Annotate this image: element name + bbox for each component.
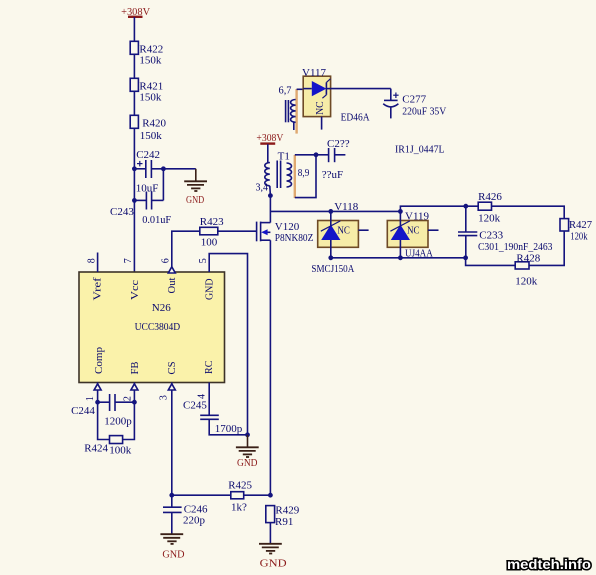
svg-text:NC: NC xyxy=(337,224,350,236)
pin 1 stub xyxy=(97,383,99,403)
svg-text:FB: FB xyxy=(129,362,141,375)
resistor R422 xyxy=(130,41,138,54)
pin 5 wire xyxy=(209,254,247,435)
resistor R420 xyxy=(130,115,138,128)
svg-text:6,7: 6,7 xyxy=(279,84,292,96)
node pin1 xyxy=(95,400,100,405)
resistor R424 with loop wires xyxy=(98,402,135,443)
pin 1 triangle xyxy=(94,384,101,390)
svg-text:0.01uF: 0.01uF xyxy=(142,214,171,226)
svg-text:10uF: 10uF xyxy=(136,183,159,195)
capacitor C233 xyxy=(458,206,477,258)
pin 3 triangle xyxy=(168,384,175,390)
svg-text:RC: RC xyxy=(203,361,215,374)
wire to R425 xyxy=(172,494,231,496)
svg-text:120k: 120k xyxy=(478,213,501,225)
svg-text:SMCJ150A: SMCJ150A xyxy=(311,263,354,275)
resistor R428 xyxy=(515,262,529,269)
pin 2 stub xyxy=(133,383,135,403)
svg-text:R425: R425 xyxy=(228,480,252,492)
node R425/R429/source xyxy=(268,493,273,498)
wire xyxy=(269,523,271,544)
resistor R425 xyxy=(231,492,244,499)
transformer T1 primary winding 3,4 xyxy=(265,163,271,196)
wire winding to V117 xyxy=(297,88,304,90)
resistor R421 xyxy=(130,78,138,91)
svg-text:C277: C277 xyxy=(402,94,426,106)
diode V119 UJ4AA xyxy=(387,211,438,257)
svg-text:C2??: C2?? xyxy=(327,138,350,150)
svg-text:V118: V118 xyxy=(334,201,359,213)
svg-text:medteh.info: medteh.info xyxy=(507,556,591,572)
node C233 bottom xyxy=(463,255,468,260)
svg-text:??uF: ??uF xyxy=(322,169,343,181)
transformer T1 winding 6,7 xyxy=(291,89,297,134)
svg-text:C244: C244 xyxy=(71,405,95,417)
svg-text:UJ4AA: UJ4AA xyxy=(405,248,433,260)
svg-text:R429: R429 xyxy=(275,505,299,517)
svg-text:R426: R426 xyxy=(478,191,502,203)
svg-text:3,4: 3,4 xyxy=(256,182,269,194)
wire xyxy=(133,128,135,272)
capacitor C245 xyxy=(200,415,247,435)
wire R426 to R427 xyxy=(492,206,565,218)
svg-text:3: 3 xyxy=(159,395,170,400)
svg-text:C246: C246 xyxy=(184,503,208,515)
wire xyxy=(133,17,135,41)
transformer T1 core upper xyxy=(286,100,289,122)
svg-text:GND: GND xyxy=(186,194,204,206)
svg-text:R424: R424 xyxy=(84,442,108,454)
node V119 top xyxy=(398,209,403,214)
node V118 top xyxy=(328,209,333,214)
svg-text:Vref: Vref xyxy=(92,277,104,300)
pin 6 wire to R423 xyxy=(172,231,200,272)
svg-text:8: 8 xyxy=(86,258,97,263)
svg-text:GND: GND xyxy=(260,558,287,570)
svg-text:CS: CS xyxy=(166,362,178,375)
wire xyxy=(244,494,271,496)
ground GND2 xyxy=(236,435,259,457)
svg-text:+308V: +308V xyxy=(256,132,283,144)
svg-text:220p: 220p xyxy=(183,515,206,527)
svg-text:V119: V119 xyxy=(405,210,430,222)
svg-text:5: 5 xyxy=(198,258,209,263)
resistor R426 xyxy=(478,202,491,210)
svg-text:C243: C243 xyxy=(110,206,134,218)
node C245/GND xyxy=(245,432,250,437)
wire xyxy=(133,54,135,78)
node secondary top xyxy=(314,152,319,157)
svg-text:100: 100 xyxy=(201,237,218,249)
node V118 bottom xyxy=(328,255,333,260)
svg-text:GND: GND xyxy=(237,457,258,469)
svg-text:R427: R427 xyxy=(569,219,592,231)
svg-text:C233: C233 xyxy=(479,230,503,242)
svg-text:GND: GND xyxy=(204,278,216,300)
svg-text:100k: 100k xyxy=(109,444,132,456)
svg-text:R91: R91 xyxy=(275,516,293,528)
node C242-right xyxy=(161,166,166,171)
wire gate xyxy=(218,230,257,232)
svg-text:1k?: 1k? xyxy=(231,502,247,514)
wire R428 to C233 bottom xyxy=(466,258,516,266)
node C242-left xyxy=(132,166,137,171)
svg-text:1: 1 xyxy=(85,396,96,401)
svg-text:UCC3804D: UCC3804D xyxy=(135,321,181,333)
svg-text:N26: N26 xyxy=(152,302,171,314)
capacitor C243 xyxy=(134,169,163,210)
svg-text:Comp: Comp xyxy=(93,347,105,374)
svg-text:6: 6 xyxy=(161,258,172,263)
node pin3/R425/C246 xyxy=(169,493,174,498)
svg-text:8,9: 8,9 xyxy=(298,167,310,179)
resistor R429 xyxy=(266,506,275,523)
transformer T1 core xyxy=(277,161,280,189)
pin 8 stub xyxy=(97,253,99,273)
svg-text:Vcc: Vcc xyxy=(129,280,141,300)
resistor R427 xyxy=(560,219,569,231)
svg-text:ED46A: ED46A xyxy=(341,112,370,124)
resistor R423 xyxy=(200,227,218,235)
svg-text:C245: C245 xyxy=(183,400,207,412)
node C243-left xyxy=(132,198,137,203)
wire top bus drain to V119 xyxy=(270,210,400,212)
wire bottom bus xyxy=(331,257,466,259)
capacitor C246 xyxy=(163,495,182,534)
svg-text:1200p: 1200p xyxy=(104,415,132,427)
svg-text:R422: R422 xyxy=(139,44,163,56)
svg-text:1700p: 1700p xyxy=(215,423,243,435)
ground GND3 xyxy=(160,534,183,544)
svg-text:P8NK80Z: P8NK80Z xyxy=(275,232,314,244)
node V119 bottom xyxy=(398,255,403,260)
svg-text:120k: 120k xyxy=(515,275,538,287)
pin 2 triangle xyxy=(131,384,138,390)
power +308V rail 1 xyxy=(128,16,143,18)
capacitor C244 xyxy=(98,394,135,411)
svg-text:V117: V117 xyxy=(302,67,327,79)
transistor Q1 : MOSFET V120 P8NK80Z xyxy=(257,222,271,242)
svg-text:GND: GND xyxy=(162,548,184,560)
svg-text:4: 4 xyxy=(197,394,208,399)
svg-text:Out: Out xyxy=(166,278,178,294)
capacitor C242 xyxy=(134,160,195,178)
svg-text:R421: R421 xyxy=(139,81,163,93)
pin 4 wire xyxy=(208,383,210,416)
svg-text:7: 7 xyxy=(123,258,134,263)
node C233 top xyxy=(463,204,468,209)
svg-text:2: 2 xyxy=(122,396,133,401)
svg-text:150k: 150k xyxy=(139,55,162,67)
node pin2 xyxy=(132,400,137,405)
svg-text:C242: C242 xyxy=(136,149,160,161)
svg-text:C301_190nF_2463: C301_190nF_2463 xyxy=(478,241,553,253)
wire xyxy=(267,144,269,162)
svg-text:120k: 120k xyxy=(570,231,588,243)
capacitor C2?? xyxy=(316,148,345,162)
diode V117 ED46A xyxy=(303,76,330,129)
svg-text:150k: 150k xyxy=(139,92,162,104)
op-amp U1 : PWM controller IC N26 UCC3804D xyxy=(79,272,225,383)
svg-text:150k: 150k xyxy=(140,130,163,142)
svg-text:IR1J_0447L: IR1J_0447L xyxy=(395,144,445,156)
diode V118 SMCJ150A xyxy=(318,211,369,257)
pin 6 output triangle xyxy=(168,267,175,273)
svg-text:T1: T1 xyxy=(278,151,290,163)
svg-text:220uF 35V: 220uF 35V xyxy=(402,106,446,118)
wire secondary loop xyxy=(295,155,316,198)
capacitor C277 polarized xyxy=(383,89,398,119)
svg-text:R428: R428 xyxy=(516,253,540,265)
svg-text:+308V: +308V xyxy=(121,6,150,18)
svg-text:R423: R423 xyxy=(200,216,224,228)
wire V117 to C277 xyxy=(331,88,391,90)
ground GND4 xyxy=(259,544,282,554)
transformer T1 secondary winding 8,9 xyxy=(287,155,295,198)
wire bus jog up xyxy=(400,206,478,211)
wire xyxy=(133,91,135,115)
node transformer/drain xyxy=(268,193,273,198)
ground GND1 xyxy=(184,169,207,191)
power +308V rail 2 xyxy=(260,142,275,144)
pin 3 wire xyxy=(171,383,173,496)
wire drain up xyxy=(269,196,271,223)
svg-text:R420: R420 xyxy=(142,118,166,130)
wire source down xyxy=(269,240,271,495)
svg-text:NC: NC xyxy=(314,101,326,115)
svg-text:NC: NC xyxy=(407,224,420,236)
wire R427 down to R428 xyxy=(529,231,564,265)
